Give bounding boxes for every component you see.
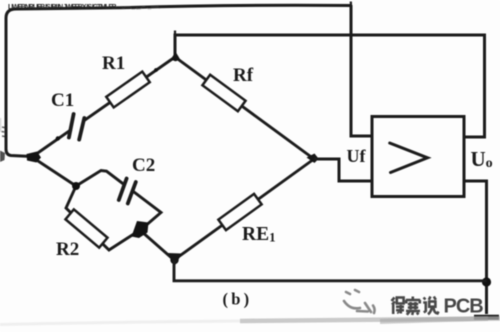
svg-text:R2: R2: [56, 239, 79, 260]
node: left node L: [27, 152, 42, 163]
terminal bar at output bottom: [474, 315, 499, 320]
svg-text:LIWFBNRLIFB.IS.IBI.IN.JWFFBX.I: LIWFBNRLIFB.IS.IBI.IN.JWFFBX.IS.IGTMLFB: [8, 4, 117, 11]
svg-text:-..—._ ,_.-- ._—-.: -..—._ ,_.-- ._—-.: [120, 4, 160, 11]
svg-text:Uf: Uf: [347, 146, 367, 166]
junction blob arrow at parallel block right corner: [132, 221, 149, 238]
wire: bridge arm top node to right node (Rf branch): [175, 57, 314, 159]
resistor R2: [65, 209, 107, 247]
node: output junction J: [482, 277, 491, 286]
watermark character 3: [423, 297, 438, 315]
wire: parallel block bottom branch through R2: [66, 186, 140, 250]
svg-text:Rf: Rf: [233, 65, 254, 86]
svg-text:C1: C1: [51, 90, 74, 111]
capacitor C1 plates: [69, 114, 84, 140]
svg-text:C2: C2: [132, 155, 155, 176]
wire: bridge arm bottom node to right node (RE1 branch): [174, 159, 314, 260]
watermark character 1: [392, 298, 405, 315]
left edge gray dash: [0, 118, 1, 132]
watermark character 2: [406, 297, 420, 316]
op-amp U1 box: [372, 117, 464, 197]
wire: top node up and across to op-amp right pin: [175, 35, 485, 137]
svg-text:(b): (b): [223, 290, 253, 309]
wire: op-amp output to right edge and down: [464, 181, 487, 314]
svg-text:PCB: PCB: [444, 296, 484, 318]
wire: vertical drop from top wire into op-amp left pin: [351, 5, 372, 136]
node: block left node P: [72, 182, 80, 190]
ink speck near R1: [154, 68, 158, 72]
left edge tick marks: [2, 127, 5, 137]
wire: left node down to parallel block node P: [32, 157, 76, 186]
capacitor C2 plates: [119, 179, 136, 204]
node: top node T: [172, 55, 178, 61]
node: bottom node B: [170, 256, 178, 264]
wire: parallel block top branch through C2: [76, 171, 161, 231]
wire: Uf lead from right node into op-amp input: [314, 159, 372, 181]
wire: bridge arm top node to left node (R1,C1 branch): [32, 57, 175, 157]
wire: bottom return from bottom node to output junction: [174, 260, 487, 281]
left edge ink mark: [0, 151, 5, 163]
ink speck on T-L arm: [56, 136, 60, 140]
resistor Rf: [202, 75, 245, 112]
bottom gray scan streak: [0, 321, 240, 325]
resistor RE1: [218, 194, 261, 230]
capacitor C2 gap: [116, 176, 140, 202]
svg-text:R1: R1: [102, 53, 125, 74]
resistor R1: [106, 72, 149, 108]
watermark doodle logo: [344, 290, 375, 313]
wire: block right junction to bottom node: [141, 231, 174, 260]
capacitor C1 gap: [65, 112, 90, 139]
wire: left node to left edge, up left side, along top to feedback branch: [6, 5, 351, 156]
op-amp U1 gain symbol: [390, 143, 428, 173]
node: right node R: [311, 156, 317, 162]
